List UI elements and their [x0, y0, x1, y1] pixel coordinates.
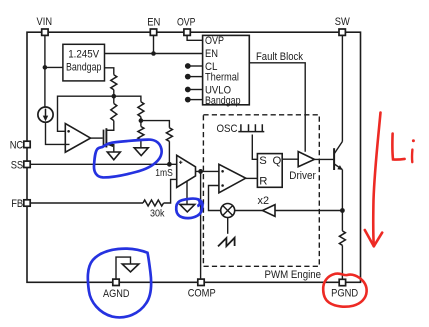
- OSC clock icon: [238, 124, 264, 131]
- op-amp gm 1mS: [177, 155, 196, 187]
- node emitter sense: [340, 208, 345, 213]
- bandgap box: [63, 44, 105, 81]
- wire Q to driver: [282, 158, 298, 160]
- op-amp plus marker: [67, 130, 70, 133]
- transistor Q1 emitter: [334, 164, 342, 170]
- svg-text:1mS: 1mS: [155, 167, 173, 179]
- current source I1: [38, 107, 53, 122]
- transistor M1 source arrow: [107, 142, 113, 147]
- transistor M1 drain lead: [106, 129, 113, 131]
- red arrow inductor current: [365, 113, 382, 247]
- transistor M1 channel bar: [105, 128, 107, 147]
- IC outer border: [27, 32, 361, 282]
- AGND symbol stem: [116, 257, 131, 279]
- wire op-amp output to gate: [91, 137, 103, 139]
- comparator top input marker: [221, 170, 224, 173]
- svg-text:30k: 30k: [150, 208, 165, 220]
- wire OVP to fault block: [187, 35, 203, 40]
- svg-text:EN: EN: [205, 48, 218, 60]
- svg-text:S: S: [259, 155, 267, 167]
- resistor divider top: [138, 102, 144, 117]
- x2 amp triangle: [263, 205, 276, 217]
- wire node A down: [113, 96, 115, 103]
- red handwritten i subscript: [412, 139, 415, 162]
- wire bandgap lower output: [105, 68, 114, 75]
- svg-text:1.245V: 1.245V: [68, 48, 100, 60]
- wire x2 input from emitter sense: [275, 210, 342, 212]
- wire multiplier ramp stub: [227, 218, 229, 234]
- node B: [139, 118, 144, 123]
- wire gm output: [196, 170, 219, 172]
- svg-text:x2: x2: [258, 195, 270, 207]
- wire comparator lower input to multiplier: [209, 186, 221, 211]
- wire to divider ground: [140, 140, 142, 148]
- resistor 30k: [143, 200, 164, 206]
- svg-text:OSC: OSC: [217, 123, 238, 135]
- ground MOSFET source: [107, 152, 120, 160]
- svg-text:NC: NC: [10, 140, 24, 152]
- svg-text:OVP: OVP: [177, 17, 196, 29]
- wire node B right: [141, 121, 170, 128]
- node gm output: [198, 169, 203, 174]
- wire to node B: [140, 117, 142, 121]
- resistor SS node: [166, 128, 172, 142]
- resistor divider bottom: [138, 127, 144, 140]
- wire SW drop: [341, 35, 343, 141]
- multiplier X1: [221, 204, 235, 218]
- blue loop around MOSFET and divider grounds: [94, 140, 162, 178]
- wire bandgap to EN/fault row: [105, 53, 203, 55]
- svg-text:PGND: PGND: [331, 287, 358, 299]
- svg-text:PWM Engine: PWM Engine: [265, 269, 322, 281]
- gm plus marker: [179, 161, 182, 164]
- ground AGND: [122, 264, 139, 272]
- transistor M1 gate bar: [103, 130, 105, 147]
- wire OSC to S input: [252, 135, 257, 160]
- pin AGND: [113, 279, 119, 285]
- red circle around PGND: [323, 273, 366, 306]
- svg-text:COMP: COMP: [188, 288, 216, 300]
- wire resistor to drain: [106, 121, 113, 131]
- svg-text:Q: Q: [273, 155, 282, 167]
- wire 30k to gm minus: [164, 179, 177, 203]
- stub Thermal input: [185, 74, 203, 80]
- svg-text:R: R: [259, 175, 267, 187]
- wire fault block to driver: [249, 63, 305, 152]
- stub CL input: [185, 63, 203, 69]
- wire multiplier to x2: [235, 210, 263, 212]
- pin SS: [24, 161, 30, 167]
- pin NC: [24, 141, 30, 147]
- pin SW: [339, 29, 345, 35]
- ground gm amp: [180, 204, 195, 212]
- transistor Q1 base bar: [333, 148, 335, 170]
- resistor drain R: [111, 104, 117, 121]
- wire node A to divider: [114, 96, 141, 102]
- dashed PWM engine box: [203, 115, 319, 266]
- svg-text:OVP: OVP: [205, 35, 224, 47]
- resistor bandgap top: [111, 75, 117, 90]
- pin FB: [24, 200, 30, 206]
- pin VIN: [42, 29, 48, 35]
- red handwritten L: [392, 134, 404, 160]
- wire comparator output to R: [246, 177, 258, 179]
- driver triangle: [298, 152, 314, 167]
- pin EN: [150, 29, 156, 35]
- wire driver to BJT base: [314, 158, 333, 160]
- wire to node A: [113, 90, 115, 97]
- latch U3 SR: [257, 154, 282, 188]
- pin PGND: [339, 279, 345, 285]
- svg-text:Fault Block: Fault Block: [256, 51, 303, 63]
- wire emitter down: [341, 170, 343, 231]
- wire SS line: [30, 163, 177, 165]
- svg-text:FB: FB: [11, 198, 23, 210]
- wire EN drop: [153, 35, 155, 53]
- node A: [112, 94, 117, 99]
- ground divider: [134, 148, 148, 156]
- stub UVLO input: [185, 87, 203, 93]
- wire bandgap left input: [45, 66, 63, 68]
- ramp sawtooth icon: [218, 238, 235, 247]
- blue loop around gm ground: [176, 199, 202, 219]
- transistor M1 source lead: [106, 145, 113, 152]
- resistor sense: [339, 231, 345, 245]
- svg-text:EN: EN: [147, 17, 160, 29]
- svg-text:Driver: Driver: [289, 170, 316, 182]
- svg-text:Bandgap: Bandgap: [205, 95, 241, 107]
- wire COMP drop: [200, 171, 202, 279]
- transistor Q1 emitter arrow: [337, 165, 342, 170]
- svg-text:AGND: AGND: [103, 288, 130, 300]
- transistor Q1 collector: [334, 142, 342, 154]
- fault block U2: [203, 35, 250, 104]
- op-amp U1: [65, 124, 90, 153]
- stub Bandgap input: [185, 97, 203, 103]
- svg-text:SS: SS: [11, 159, 24, 171]
- pin OVP: [184, 29, 190, 35]
- pin COMP: [198, 279, 204, 285]
- wire node B down: [140, 121, 142, 127]
- node VIN-bandgap junction: [43, 65, 48, 70]
- wire node A feedback to op-amp: [58, 96, 114, 131]
- blue loop around AGND: [88, 249, 151, 318]
- node EN junction: [151, 51, 156, 56]
- wire to PGND: [341, 245, 343, 279]
- svg-text:VIN: VIN: [37, 16, 53, 28]
- svg-text:Thermal: Thermal: [205, 72, 239, 84]
- svg-text:SW: SW: [335, 16, 350, 28]
- comparator U4: [219, 164, 246, 193]
- svg-text:Bandgap: Bandgap: [66, 62, 102, 74]
- wire VIN drop: [44, 35, 46, 106]
- wire resistor to SS line: [168, 141, 170, 164]
- wire FB line: [30, 202, 143, 204]
- node SS gm input: [167, 162, 172, 167]
- wire current source to op-amp: [46, 122, 70, 144]
- comparator bottom input marker: [221, 184, 224, 187]
- wire gm ground stem: [186, 181, 188, 204]
